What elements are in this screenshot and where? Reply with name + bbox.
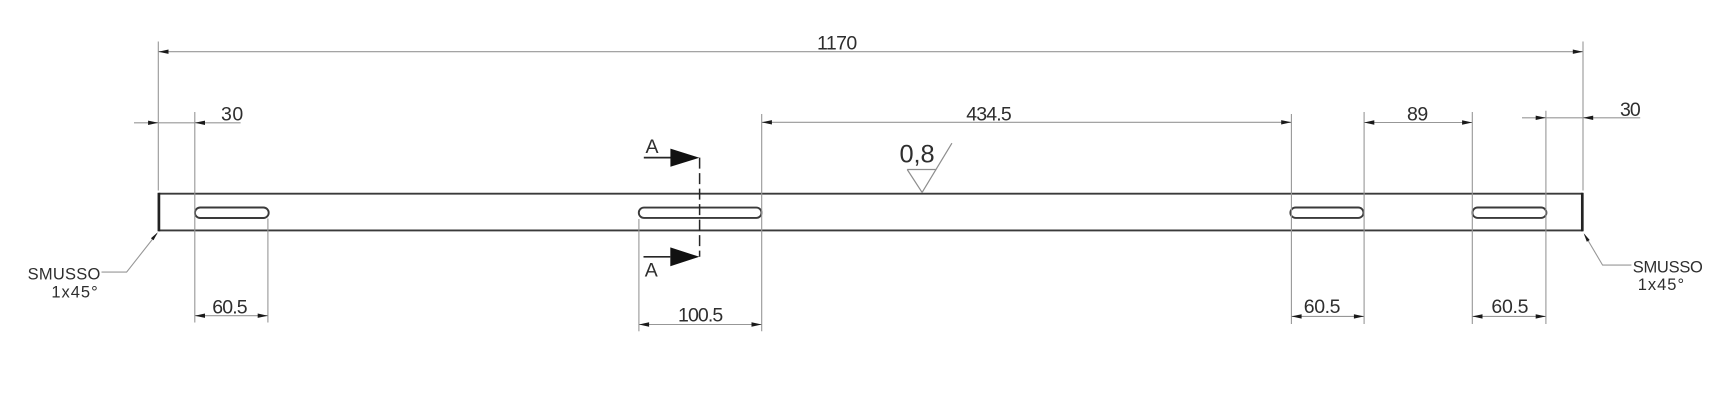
dimension 434.5 xyxy=(762,103,1292,125)
svg-text:0,8: 0,8 xyxy=(900,141,935,169)
svg-text:30: 30 xyxy=(1620,99,1641,121)
svg-text:30: 30 xyxy=(221,104,243,126)
dimension 100.5 xyxy=(639,305,762,327)
dimension 30 right xyxy=(1522,99,1641,121)
slot S1 xyxy=(195,208,269,219)
svg-text:60.5: 60.5 xyxy=(212,296,247,318)
leader SMUSSO right xyxy=(1584,233,1632,265)
dimension 1170 xyxy=(158,33,1583,55)
svg-text:1170: 1170 xyxy=(817,33,857,55)
svg-text:1x45°: 1x45° xyxy=(1638,276,1684,294)
svg-text:60.5: 60.5 xyxy=(1491,296,1528,318)
dimension 30 left xyxy=(134,104,243,126)
svg-text:SMUSSO: SMUSSO xyxy=(28,266,101,284)
svg-text:434.5: 434.5 xyxy=(966,103,1012,125)
dimension 60.5 fourth xyxy=(1472,296,1546,318)
extension lines xyxy=(158,42,1583,332)
svg-text:100.5: 100.5 xyxy=(678,305,723,327)
dimension 60.5 first xyxy=(195,296,268,318)
leader SMUSSO left xyxy=(102,232,158,272)
svg-text:A: A xyxy=(646,136,659,158)
slot S4 xyxy=(1472,208,1546,218)
chamfer edge left xyxy=(158,193,161,232)
bar outline xyxy=(158,194,1583,231)
svg-text:SMUSSO: SMUSSO xyxy=(1633,259,1703,277)
svg-text:89: 89 xyxy=(1407,103,1427,125)
slot S3 xyxy=(1290,208,1363,218)
slot S2 xyxy=(639,208,762,218)
svg-text:60.5: 60.5 xyxy=(1304,296,1341,318)
svg-text:1x45°: 1x45° xyxy=(51,284,97,302)
surface finish symbol 0,8 xyxy=(907,143,952,192)
dimension 89 xyxy=(1364,103,1472,125)
svg-text:A: A xyxy=(645,259,658,281)
dimension 60.5 third xyxy=(1291,296,1364,318)
chamfer edge right xyxy=(1581,193,1584,232)
section line A-A xyxy=(644,149,700,267)
